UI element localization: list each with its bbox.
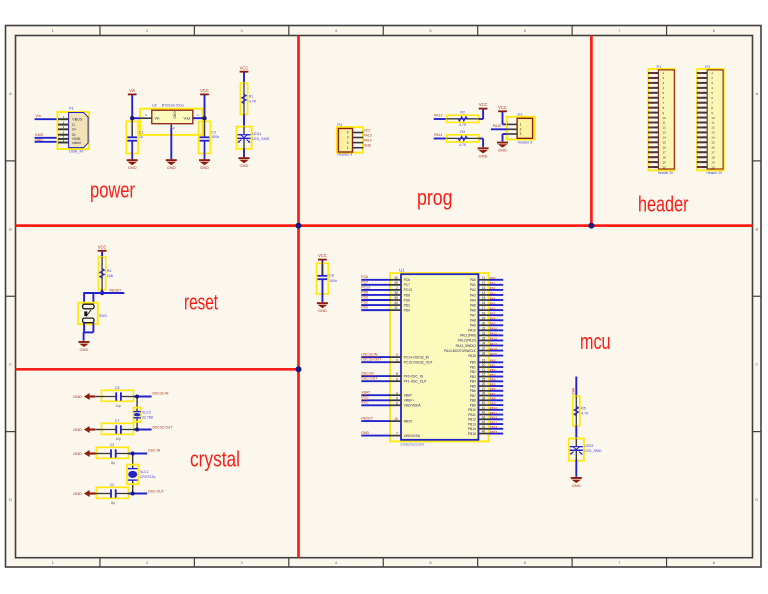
svg-text:×: ×	[58, 123, 60, 127]
svg-text:20: 20	[482, 363, 486, 367]
svg-text:PB10: PB10	[468, 408, 476, 412]
svg-text:PA8: PA8	[490, 317, 496, 321]
svg-text:PB3: PB3	[470, 375, 476, 379]
svg-text:VCC: VCC	[361, 401, 369, 405]
svg-text:41: 41	[394, 306, 398, 310]
svg-text:28: 28	[482, 392, 486, 396]
svg-text:OSC32-IN: OSC32-IN	[152, 391, 169, 395]
svg-text:PB5: PB5	[490, 382, 496, 386]
svg-text:PA14: PA14	[490, 347, 498, 351]
svg-text:PA8: PA8	[648, 140, 653, 144]
svg-text:PB2: PB2	[490, 368, 496, 372]
svg-text:C5: C5	[115, 386, 120, 390]
svg-text:Header 20: Header 20	[658, 171, 674, 175]
svg-text:D: D	[755, 497, 758, 502]
svg-text:PD0: PD0	[404, 308, 411, 312]
svg-text:C3: C3	[110, 443, 115, 447]
svg-text:16: 16	[482, 301, 486, 305]
svg-text:U1: U1	[399, 267, 405, 272]
svg-text:RESET: RESET	[361, 417, 374, 421]
svg-text:PB10: PB10	[697, 86, 704, 90]
svg-text:Header 20: Header 20	[707, 171, 723, 175]
svg-text:OSC-IN: OSC-IN	[148, 448, 161, 452]
svg-text:10: 10	[663, 116, 667, 120]
svg-text:C1: C1	[139, 131, 144, 135]
svg-text:PB13: PB13	[490, 420, 498, 424]
svg-text:PA10: PA10	[648, 131, 655, 135]
svg-text:GND: GND	[697, 165, 703, 169]
svg-text:15: 15	[663, 141, 667, 145]
svg-text:PA11 [PA9]: PA11 [PA9]	[460, 334, 476, 338]
svg-text:PA0: PA0	[470, 278, 476, 282]
svg-text:PC15-OSC32_OUT: PC15-OSC32_OUT	[404, 361, 433, 365]
svg-text:VCC: VCC	[364, 129, 372, 133]
svg-text:PB15: PB15	[490, 430, 498, 434]
svg-text:R4: R4	[107, 269, 112, 273]
svg-text:PB12: PB12	[648, 160, 655, 164]
svg-text:33: 33	[482, 337, 486, 341]
svg-text:VCC: VCC	[318, 253, 327, 258]
svg-text:PB0: PB0	[490, 359, 496, 363]
svg-text:22: 22	[482, 373, 486, 377]
svg-text:GND: GND	[128, 165, 137, 170]
svg-text:PA9: PA9	[490, 322, 496, 326]
svg-text:VCC: VCC	[98, 244, 107, 249]
svg-text:PC14-OSC32_IN: PC14-OSC32_IN	[404, 355, 430, 359]
svg-text:GND: GND	[361, 431, 369, 435]
svg-text:PB14: PB14	[490, 425, 498, 429]
svg-text:PA10: PA10	[493, 124, 501, 128]
svg-text:PB6: PB6	[648, 96, 653, 100]
svg-text:PF0-OSC_IN: PF0-OSC_IN	[404, 374, 424, 378]
svg-text:PD6: PD6	[361, 295, 368, 299]
svg-text:PA8: PA8	[572, 388, 576, 394]
svg-text:42: 42	[482, 411, 486, 415]
svg-text:GND: GND	[73, 394, 82, 399]
svg-text:18: 18	[482, 311, 486, 315]
svg-text:VBAT: VBAT	[361, 391, 371, 395]
svg-text:PC15: PC15	[697, 145, 704, 149]
svg-text:4: 4	[396, 391, 398, 395]
svg-text:PB1: PB1	[470, 365, 476, 369]
svg-text:4.7K: 4.7K	[581, 412, 589, 416]
svg-text:RT9193-XXxx: RT9193-XXxx	[162, 103, 185, 107]
svg-text:38: 38	[482, 352, 486, 356]
svg-text:PF1-OSC_OUT: PF1-OSC_OUT	[404, 380, 427, 384]
svg-text:14: 14	[663, 136, 667, 140]
svg-text:PA13: PA13	[490, 342, 498, 346]
svg-text:Header 4: Header 4	[337, 153, 352, 157]
svg-text:35: 35	[394, 281, 398, 285]
svg-text:PB13: PB13	[648, 155, 655, 159]
svg-text:4: 4	[347, 131, 349, 135]
svg-text:12: 12	[711, 126, 715, 130]
svg-text:PB15: PB15	[648, 145, 655, 149]
svg-text:14: 14	[482, 291, 486, 295]
svg-text:2: 2	[520, 128, 522, 132]
svg-text:16: 16	[711, 145, 715, 149]
svg-text:1: 1	[520, 123, 522, 127]
svg-text:VCC: VCC	[498, 105, 507, 110]
svg-text:PB12: PB12	[490, 416, 498, 420]
svg-text:8: 8	[396, 372, 398, 376]
svg-text:41: 41	[482, 406, 486, 410]
svg-text:OSC32-OUT: OSC32-OUT	[361, 358, 382, 362]
svg-text:PD2: PD2	[404, 303, 411, 307]
svg-text:7: 7	[396, 432, 398, 436]
svg-text:GND: GND	[697, 76, 703, 80]
svg-text:GND: GND	[240, 163, 249, 168]
svg-text:LED_SMD: LED_SMD	[252, 137, 269, 141]
svg-text:PB7: PB7	[648, 91, 653, 95]
svg-text:A: A	[755, 91, 758, 96]
svg-text:PD8: PD8	[361, 290, 368, 294]
svg-text:PA3: PA3	[470, 293, 476, 297]
svg-text:LED_SMD: LED_SMD	[585, 449, 602, 453]
svg-text:37: 37	[482, 347, 486, 351]
svg-text:PC13: PC13	[361, 285, 370, 289]
svg-text:PA8: PA8	[470, 319, 476, 323]
svg-text:13: 13	[482, 286, 486, 290]
svg-text:shield: shield	[72, 141, 81, 145]
svg-text:PA13: PA13	[434, 114, 442, 118]
svg-text:PA15: PA15	[490, 352, 498, 356]
svg-text:10p: 10p	[115, 437, 121, 441]
svg-text:PA5: PA5	[697, 116, 702, 120]
svg-text:15: 15	[482, 296, 486, 300]
svg-text:20: 20	[663, 165, 667, 169]
svg-text:PB5: PB5	[648, 101, 653, 105]
svg-text:VCC: VCC	[240, 65, 249, 70]
svg-text:GND: GND	[80, 347, 89, 352]
svg-text:4.7K: 4.7K	[249, 99, 257, 103]
svg-text:16: 16	[663, 145, 667, 149]
svg-text:PA10: PA10	[468, 329, 476, 333]
svg-text:R1: R1	[249, 94, 254, 98]
svg-text:PB2: PB2	[470, 370, 476, 374]
svg-text:RESET: RESET	[110, 288, 123, 292]
svg-text:PA14: PA14	[364, 139, 372, 143]
svg-text:2: 2	[396, 286, 398, 290]
svg-text:PB4: PB4	[490, 378, 496, 382]
svg-text:PA7: PA7	[470, 313, 476, 317]
svg-text:C3: C3	[211, 131, 216, 135]
svg-text:USB_M: USB_M	[69, 149, 83, 154]
svg-text:PB7: PB7	[490, 392, 496, 396]
svg-text:VCC: VCC	[200, 88, 209, 93]
svg-text:17: 17	[711, 150, 715, 154]
svg-text:PA14-BOOT0/SWCLK: PA14-BOOT0/SWCLK	[444, 349, 477, 353]
svg-text:18: 18	[711, 155, 715, 159]
svg-text:PA0: PA0	[697, 140, 702, 144]
svg-text:8p: 8p	[111, 461, 115, 465]
svg-text:PD6: PD6	[404, 298, 411, 302]
svg-text:mcu: mcu	[580, 329, 611, 354]
svg-text:2: 2	[396, 353, 398, 357]
svg-text:PB15: PB15	[468, 432, 476, 436]
svg-text:3: 3	[396, 358, 398, 362]
svg-text:PA6: PA6	[470, 308, 476, 312]
svg-text:GND: GND	[318, 308, 327, 313]
svg-text:PB8: PB8	[648, 86, 653, 90]
svg-text:PB3: PB3	[648, 111, 653, 115]
svg-text:46: 46	[482, 430, 486, 434]
svg-text:PA4: PA4	[470, 298, 476, 302]
svg-text:Vin: Vin	[129, 88, 136, 93]
svg-text:D-: D-	[72, 123, 75, 127]
svg-text:PC6: PC6	[404, 278, 411, 282]
svg-text:PA11: PA11	[648, 126, 655, 130]
svg-text:XLC2: XLC2	[142, 411, 151, 415]
svg-text:21: 21	[482, 368, 486, 372]
svg-text:R3: R3	[460, 130, 465, 134]
svg-text:29: 29	[482, 316, 486, 320]
svg-text:PB9: PB9	[648, 81, 653, 85]
svg-text:PB4: PB4	[470, 380, 476, 384]
svg-text:25: 25	[482, 377, 486, 381]
svg-text:PB9: PB9	[470, 403, 476, 407]
svg-text:PD8: PD8	[404, 293, 411, 297]
svg-text:19: 19	[663, 160, 667, 164]
svg-text:PA14: PA14	[434, 133, 442, 137]
svg-text:13: 13	[663, 131, 667, 135]
svg-text:LED1: LED1	[252, 132, 261, 136]
svg-text:6: 6	[396, 401, 398, 405]
svg-text:1u: 1u	[139, 135, 143, 139]
svg-text:PA1: PA1	[490, 281, 496, 285]
svg-text:PD0: PD0	[361, 306, 368, 310]
svg-text:39: 39	[394, 296, 398, 300]
svg-text:12: 12	[482, 281, 486, 285]
svg-text:PB4: PB4	[648, 106, 653, 110]
svg-text:10p: 10p	[115, 404, 121, 408]
svg-text:VBUS: VBUS	[72, 118, 82, 122]
svg-text:PB5: PB5	[470, 384, 476, 388]
svg-text:R5: R5	[581, 407, 586, 411]
svg-text:PA9: PA9	[470, 324, 476, 328]
svg-text:39: 39	[482, 396, 486, 400]
svg-text:XLC1: XLC1	[140, 470, 149, 474]
svg-text:PB11: PB11	[490, 411, 498, 415]
svg-text:11: 11	[711, 121, 714, 125]
svg-text:C: C	[755, 362, 758, 367]
svg-text:30: 30	[482, 321, 486, 325]
svg-text:Header 3: Header 3	[518, 141, 533, 145]
svg-text:VBUS: VBUS	[648, 71, 655, 75]
svg-text:4.7K: 4.7K	[459, 143, 467, 147]
svg-text:20: 20	[711, 165, 715, 169]
svg-text:PA12: PA12	[490, 337, 498, 341]
svg-text:PB7: PB7	[470, 394, 476, 398]
svg-text:PB6: PB6	[470, 389, 476, 393]
svg-text:PB12: PB12	[468, 418, 476, 422]
svg-text:12: 12	[663, 126, 667, 130]
svg-text:43: 43	[482, 415, 486, 419]
svg-text:4.7K: 4.7K	[459, 123, 467, 127]
svg-text:GND: GND	[35, 133, 44, 137]
svg-text:44: 44	[482, 420, 486, 424]
svg-text:GND: GND	[73, 451, 82, 456]
svg-text:PA2: PA2	[470, 288, 476, 292]
svg-text:38: 38	[394, 291, 398, 295]
svg-text:PB0: PB0	[470, 361, 476, 365]
svg-text:header: header	[638, 191, 689, 216]
svg-text:PA5: PA5	[470, 303, 476, 307]
svg-text:5: 5	[396, 396, 398, 400]
svg-text:PA15: PA15	[468, 354, 476, 358]
svg-text:PB1: PB1	[697, 96, 702, 100]
svg-text:PA6: PA6	[697, 111, 702, 115]
svg-text:Vin: Vin	[155, 116, 160, 120]
svg-text:18: 18	[663, 155, 667, 159]
svg-text:9: 9	[396, 377, 398, 381]
svg-text:PA3: PA3	[490, 291, 496, 295]
svg-text:17: 17	[482, 306, 486, 310]
svg-text:PA12: PA12	[648, 121, 655, 125]
svg-text:A: A	[9, 91, 12, 96]
svg-text:C: C	[9, 362, 12, 367]
svg-text:crystal: crystal	[190, 447, 240, 472]
svg-text:PC14: PC14	[697, 150, 704, 154]
svg-text:B: B	[9, 226, 12, 231]
svg-text:VSS/VSSA: VSS/VSSA	[404, 434, 421, 438]
svg-text:PA7: PA7	[697, 106, 702, 110]
svg-text:PA13_SWDIO: PA13_SWDIO	[456, 344, 477, 348]
svg-text:36: 36	[394, 276, 398, 280]
svg-text:PB0: PB0	[697, 101, 702, 105]
svg-text:PA2: PA2	[697, 131, 702, 135]
svg-text:PB11: PB11	[697, 91, 704, 95]
svg-text:PA3: PA3	[697, 126, 702, 130]
svg-text:PB11: PB11	[468, 413, 476, 417]
svg-text:1: 1	[347, 146, 349, 150]
svg-text:VCC: VCC	[697, 71, 703, 75]
svg-text:D: D	[9, 497, 12, 502]
svg-text:PB1: PB1	[490, 363, 496, 367]
svg-text:27: 27	[482, 387, 486, 391]
svg-text:Vout: Vout	[184, 116, 191, 120]
svg-text:3: 3	[520, 132, 522, 136]
svg-text:PB6: PB6	[490, 387, 496, 391]
svg-text:×: ×	[58, 133, 60, 137]
svg-text:45: 45	[482, 425, 486, 429]
svg-text:OSC32-OUT: OSC32-OUT	[152, 425, 173, 429]
svg-text:OSC-IN: OSC-IN	[361, 372, 374, 376]
svg-text:C8: C8	[329, 274, 334, 278]
svg-text:VBAT: VBAT	[404, 394, 412, 398]
svg-text:PA13: PA13	[364, 134, 372, 138]
svg-text:OSC-OUT: OSC-OUT	[148, 489, 165, 493]
svg-text:PC13: PC13	[404, 288, 412, 292]
svg-text:PB13: PB13	[468, 422, 476, 426]
svg-text:10K: 10K	[107, 274, 114, 278]
svg-text:14: 14	[711, 136, 715, 140]
svg-text:GND: GND	[73, 427, 82, 432]
svg-text:11: 11	[663, 121, 666, 125]
svg-text:GND: GND	[35, 138, 44, 142]
svg-text:PA10: PA10	[490, 327, 498, 331]
svg-text:B: B	[755, 226, 758, 231]
svg-text:PB10: PB10	[490, 406, 498, 410]
svg-text:VCC: VCC	[479, 102, 488, 107]
svg-text:GND: GND	[572, 483, 581, 488]
svg-text:U2: U2	[152, 103, 157, 107]
svg-text:PC7: PC7	[361, 280, 368, 284]
svg-text:PA1: PA1	[697, 135, 702, 139]
svg-text:LED2: LED2	[585, 444, 594, 448]
svg-text:17: 17	[663, 150, 667, 154]
svg-text:11: 11	[482, 276, 486, 280]
svg-text:VCC: VCC	[361, 396, 369, 400]
svg-text:PA4: PA4	[490, 296, 496, 300]
svg-text:PA5: PA5	[490, 301, 496, 305]
svg-text:PA15: PA15	[648, 116, 655, 120]
svg-text:2: 2	[347, 141, 349, 145]
svg-text:15: 15	[711, 141, 715, 145]
svg-text:PA4: PA4	[697, 121, 702, 125]
svg-text:GND: GND	[200, 165, 209, 170]
svg-text:PC13: PC13	[648, 76, 655, 80]
svg-text:PC6: PC6	[361, 275, 368, 279]
svg-text:P1: P1	[69, 106, 75, 111]
svg-text:PA2: PA2	[490, 286, 496, 290]
svg-text:Vin: Vin	[35, 114, 40, 118]
svg-text:40: 40	[482, 401, 486, 405]
svg-text:GND: GND	[498, 148, 507, 153]
svg-text:PD2: PD2	[648, 165, 654, 169]
svg-text:32: 32	[482, 331, 486, 335]
svg-text:SW1: SW1	[99, 314, 107, 318]
svg-text:GND: GND	[167, 165, 176, 170]
svg-text:STM32F103C8T6: STM32F103C8T6	[400, 442, 424, 446]
svg-text:OSC32-IN: OSC32-IN	[361, 353, 378, 357]
svg-text:C7: C7	[115, 419, 120, 423]
svg-text:PB14: PB14	[648, 150, 655, 154]
svg-text:26: 26	[482, 382, 486, 386]
svg-text:13: 13	[711, 131, 715, 135]
svg-text:×: ×	[58, 128, 60, 132]
svg-text:PB9: PB9	[490, 401, 496, 405]
svg-text:R2: R2	[460, 111, 465, 115]
svg-text:PA11: PA11	[490, 332, 497, 336]
svg-text:10: 10	[711, 116, 715, 120]
svg-text:CRYSTAL: CRYSTAL	[140, 475, 156, 479]
svg-text:OSC-OUT: OSC-OUT	[361, 377, 378, 381]
svg-text:GND: GND	[73, 491, 82, 496]
svg-text:PA6: PA6	[490, 306, 496, 310]
svg-text:power: power	[90, 177, 135, 202]
svg-text:GND: GND	[173, 111, 177, 119]
svg-text:VREF+: VREF+	[404, 399, 415, 403]
svg-text:GND: GND	[479, 153, 488, 158]
svg-text:PA1: PA1	[470, 283, 476, 287]
svg-text:PB9: PB9	[697, 160, 702, 164]
svg-text:5V: 5V	[697, 81, 700, 85]
svg-text:100n: 100n	[211, 135, 219, 139]
svg-text:PC13: PC13	[697, 155, 704, 159]
svg-text:VDD/VDDA: VDD/VDDA	[404, 404, 422, 408]
svg-text:32.768: 32.768	[142, 415, 153, 419]
svg-text:10: 10	[394, 417, 398, 421]
svg-text:PA7: PA7	[490, 311, 496, 315]
svg-text:PA9: PA9	[648, 135, 653, 139]
svg-text:PB14: PB14	[468, 427, 476, 431]
svg-text:3: 3	[347, 136, 349, 140]
svg-text:100n: 100n	[329, 279, 337, 283]
svg-text:PA12 [PA10]: PA12 [PA10]	[458, 339, 476, 343]
svg-text:PD2: PD2	[361, 300, 368, 304]
svg-text:31: 31	[482, 326, 486, 330]
